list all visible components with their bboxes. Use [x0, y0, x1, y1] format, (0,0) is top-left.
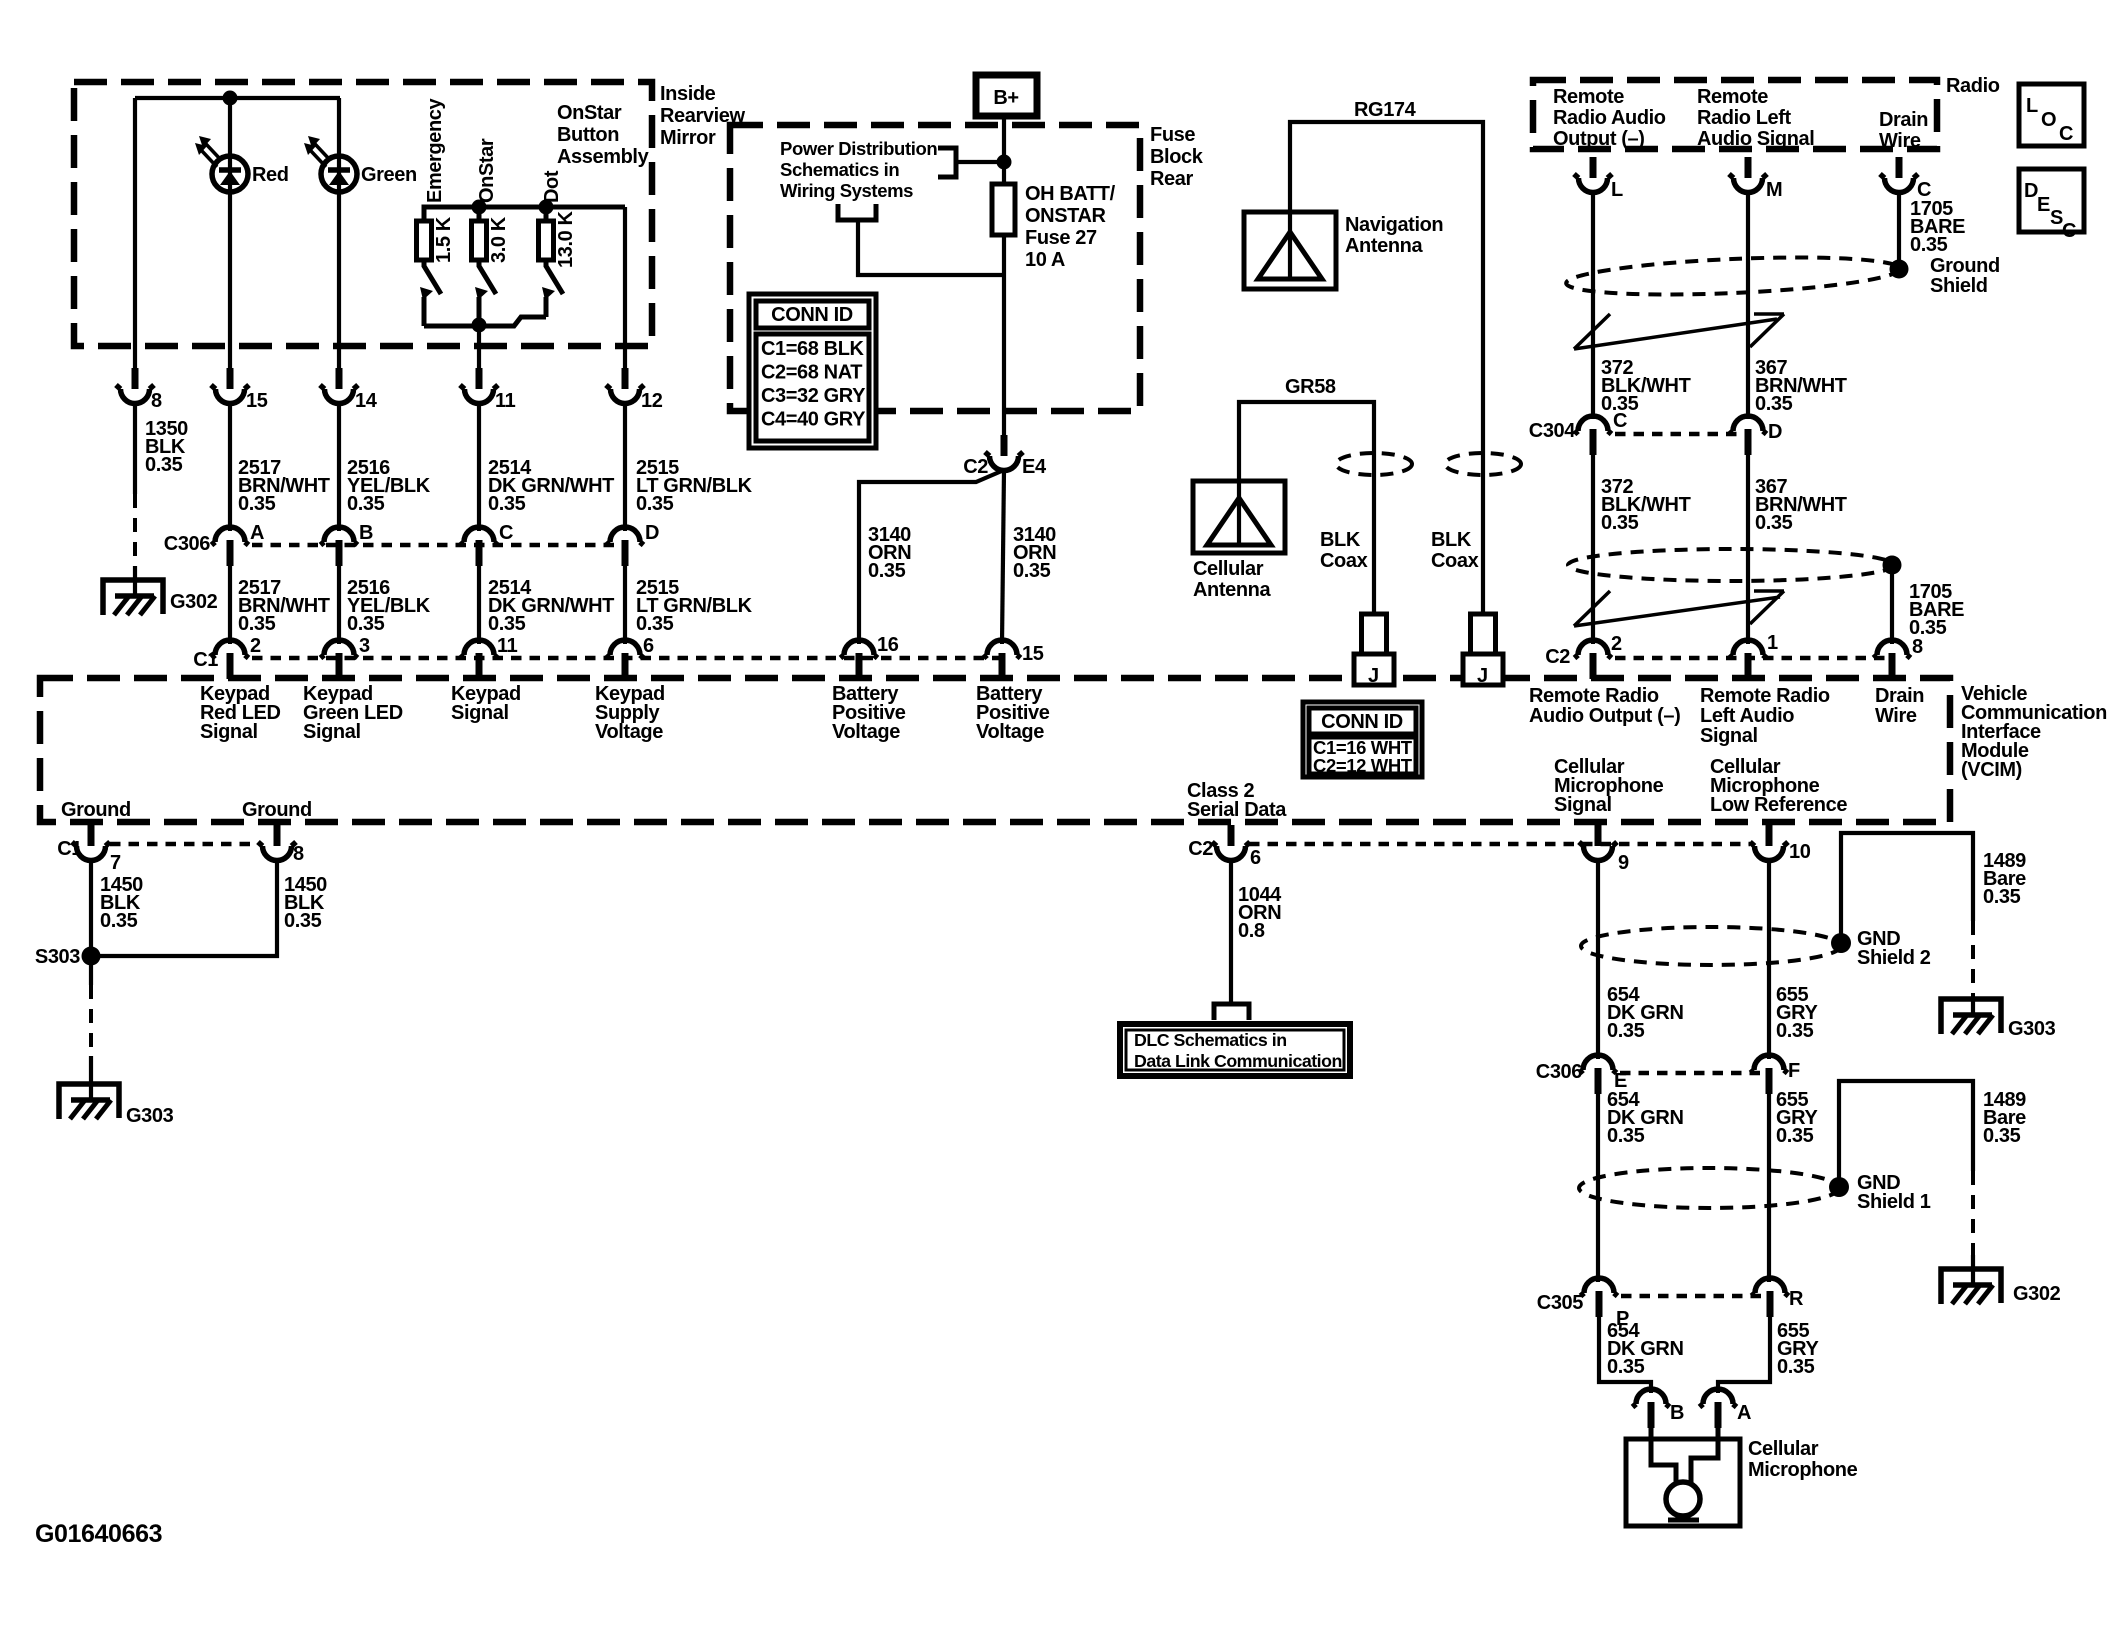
svg-text:Signal: Signal — [1554, 794, 1612, 816]
svg-text:0.35: 0.35 — [1776, 1020, 1814, 1042]
connector pin 8 mirror — [116, 368, 154, 404]
cellular microphone — [1626, 1439, 1740, 1526]
svg-text:GR58: GR58 — [1285, 376, 1336, 398]
svg-text:Voltage: Voltage — [832, 721, 900, 743]
svg-text:0.35: 0.35 — [488, 613, 526, 635]
radio dashed enclosure — [1533, 80, 1937, 149]
node ground shield junction lower — [1883, 556, 1902, 575]
svg-text:11: 11 — [495, 390, 516, 412]
wire drain 1705 BARE upper — [1897, 190, 1901, 262]
legend box DESC — [2019, 169, 2084, 232]
svg-text:Remote: Remote — [1553, 86, 1624, 108]
shield ellipse GND shield 1 — [1579, 1168, 1839, 1208]
legend box LOC — [2019, 84, 2084, 146]
bracket power distribution reference — [938, 148, 956, 177]
table CONN ID VCIM — [1303, 702, 1422, 777]
svg-text:Block: Block — [1150, 146, 1204, 168]
svg-text:G302: G302 — [2013, 1283, 2061, 1305]
wire fuse output — [1002, 235, 1006, 436]
ground G302 left — [103, 580, 163, 615]
svg-text:Mirror: Mirror — [660, 127, 716, 149]
svg-text:10: 10 — [1789, 841, 1811, 863]
svg-text:Serial Data: Serial Data — [1187, 799, 1287, 821]
switch Emergency — [420, 260, 441, 326]
svg-text:Coax: Coax — [1320, 550, 1368, 572]
svg-text:C304: C304 — [1529, 420, 1576, 442]
shield ellipse GR58 — [1336, 453, 1412, 475]
wire bracket tap — [956, 160, 1004, 164]
connector C305 pin P — [1581, 1278, 1618, 1317]
connector C305 pin R — [1752, 1278, 1789, 1317]
wire 1450 BLK 0.35 pin 8 — [99, 858, 277, 956]
VCIM dashed enclosure — [40, 678, 1950, 822]
svg-text:0.35: 0.35 — [1607, 1020, 1645, 1042]
connector C1 pin 8 lower — [258, 825, 296, 861]
node junction red LED column — [223, 91, 238, 106]
svg-text:0.35: 0.35 — [1983, 886, 2021, 908]
connector C1 pin 6 — [607, 640, 644, 679]
table CONN ID fuse block — [749, 294, 876, 448]
connector C304 pin C — [1575, 416, 1612, 455]
dashed connector row C305 — [1621, 1294, 1768, 1299]
svg-text:16: 16 — [877, 634, 899, 656]
wire drain 1705 BARE lower — [1890, 571, 1894, 644]
dashed connector row C304 — [1615, 432, 1746, 437]
svg-text:Signal: Signal — [200, 721, 258, 743]
svg-text:Wire: Wire — [1879, 130, 1921, 152]
svg-text:Inside: Inside — [660, 83, 716, 105]
svg-text:G303: G303 — [2008, 1018, 2056, 1040]
connector C1 pin 3 — [321, 640, 358, 679]
svg-text:6: 6 — [1250, 847, 1261, 869]
svg-text:C3=32 GRY: C3=32 GRY — [761, 385, 866, 407]
svg-text:Signal: Signal — [451, 702, 509, 724]
dashed connector row VCIM bottom — [1249, 842, 1750, 847]
svg-text:RG174: RG174 — [1354, 99, 1417, 121]
navigation antenna — [1244, 212, 1336, 289]
wire 655 GRY middle — [1767, 1089, 1771, 1282]
resistor 13.0 K — [539, 221, 554, 260]
wire 655 to microphone pin A — [1718, 1312, 1770, 1393]
svg-text:0.35: 0.35 — [868, 560, 906, 582]
svg-text:D: D — [2024, 180, 2038, 202]
svg-text:1: 1 — [1767, 632, 1778, 654]
wire pin 12 column — [623, 207, 627, 370]
svg-text:ONSTAR: ONSTAR — [1025, 205, 1107, 227]
connector C306 pin C — [461, 527, 498, 566]
wire 2516 YEL/BLK upper — [337, 401, 341, 531]
svg-text:Audio Output (–): Audio Output (–) — [1529, 705, 1680, 727]
connector pin 12 mirror — [606, 368, 644, 404]
connector radio pin M — [1729, 157, 1767, 193]
coax connector RG174 — [1463, 614, 1503, 687]
svg-text:C: C — [2062, 220, 2076, 242]
svg-text:8: 8 — [151, 390, 162, 412]
svg-text:0.35: 0.35 — [488, 493, 526, 515]
connector radio pin L — [1574, 157, 1612, 193]
svg-text:Output (–): Output (–) — [1553, 128, 1645, 150]
reference box DLC Schematics — [1120, 1024, 1350, 1076]
svg-text:3.0 K: 3.0 K — [488, 216, 510, 263]
connector C306 pin A — [212, 527, 249, 566]
wire RG174 coax — [1290, 122, 1483, 614]
svg-text:0.35: 0.35 — [347, 493, 385, 515]
svg-text:C: C — [2059, 123, 2073, 145]
svg-text:E4: E4 — [1022, 456, 1047, 478]
svg-text:OnStar: OnStar — [476, 138, 498, 203]
svg-text:L: L — [1611, 179, 1623, 201]
svg-text:Wire: Wire — [1875, 705, 1917, 727]
connector microphone pin A — [1700, 1389, 1737, 1428]
svg-text:0.35: 0.35 — [636, 613, 674, 635]
svg-text:C: C — [499, 522, 513, 544]
svg-text:0.35: 0.35 — [284, 910, 322, 932]
connector microphone pin B — [1633, 1389, 1670, 1428]
svg-text:(VCIM): (VCIM) — [1961, 759, 2022, 781]
ground G303 right — [1941, 999, 2001, 1034]
svg-text:9: 9 — [1618, 852, 1629, 874]
bracket DLC continuation — [1214, 1004, 1249, 1020]
svg-text:Wiring Systems: Wiring Systems — [780, 180, 913, 201]
svg-text:11: 11 — [497, 635, 518, 657]
svg-text:Shield: Shield — [1930, 275, 1988, 297]
svg-text:BLK: BLK — [1431, 529, 1472, 551]
wire GR58 coax — [1239, 402, 1374, 614]
node junction OnStar column — [472, 200, 487, 215]
svg-text:C1=68 BLK: C1=68 BLK — [761, 338, 865, 360]
svg-text:Ground: Ground — [242, 799, 312, 821]
svg-text:C306: C306 — [164, 533, 210, 555]
svg-text:15: 15 — [246, 390, 268, 412]
svg-text:C2=12 WHT: C2=12 WHT — [1313, 755, 1413, 776]
wire 367 BRN/WHT lower — [1746, 450, 1750, 644]
connector VCIM pin 9 — [1579, 825, 1617, 861]
svg-text:F: F — [1788, 1060, 1800, 1082]
wire 2517 BRN/WHT lower — [228, 561, 232, 644]
svg-text:2: 2 — [1611, 633, 1622, 655]
shield ellipse radio lower — [1568, 549, 1894, 581]
bracket schematics continuation — [838, 204, 876, 220]
svg-text:12: 12 — [641, 390, 663, 412]
svg-text:0.8: 0.8 — [1238, 920, 1265, 942]
svg-text:L: L — [2026, 95, 2038, 117]
svg-text:OnStar: OnStar — [557, 102, 622, 124]
dashed connector row C306 — [252, 543, 623, 548]
svg-text:0.35: 0.35 — [1776, 1125, 1814, 1147]
connector radio pin C drain — [1880, 157, 1918, 193]
wire 1450 BLK 0.35 pin 7 — [89, 858, 93, 956]
svg-text:0.35: 0.35 — [238, 493, 276, 515]
wire keypad switch return bus — [424, 317, 546, 326]
connector C306 pin E — [1580, 1055, 1617, 1094]
svg-text:8: 8 — [1912, 636, 1923, 658]
svg-text:Navigation: Navigation — [1345, 214, 1443, 236]
svg-text:O: O — [2041, 109, 2056, 131]
shield ellipse RG174 — [1445, 453, 1521, 475]
wire 372 BLK/WHT upper — [1591, 190, 1595, 419]
svg-text:G302: G302 — [170, 591, 218, 613]
svg-text:Signal: Signal — [303, 721, 361, 743]
coax connector GR58 — [1354, 614, 1394, 687]
connector C304 pin D — [1730, 416, 1767, 455]
svg-text:G01640663: G01640663 — [35, 1520, 162, 1548]
svg-text:Green: Green — [361, 164, 417, 186]
svg-text:C2: C2 — [1545, 646, 1570, 668]
connector VCIM pin 6 class 2 — [1212, 825, 1250, 861]
connector C1 pin 11 — [461, 640, 498, 679]
wire 2515 LT GRN/BLK lower — [623, 561, 627, 644]
svg-text:C305: C305 — [1537, 1292, 1583, 1314]
wire 655 GRY upper — [1767, 858, 1771, 1059]
svg-text:0.35: 0.35 — [1910, 234, 1948, 256]
svg-text:Remote Radio: Remote Radio — [1700, 685, 1830, 707]
svg-text:Fuse 27: Fuse 27 — [1025, 227, 1097, 249]
svg-text:Radio: Radio — [1946, 75, 2000, 97]
svg-text:Microphone: Microphone — [1748, 1459, 1858, 1481]
svg-text:0.35: 0.35 — [347, 613, 385, 635]
node ground shield junction upper — [1890, 260, 1909, 279]
svg-text:Button: Button — [557, 124, 619, 146]
wire 2515 LT GRN/BLK upper — [623, 401, 627, 531]
svg-text:Left Audio: Left Audio — [1700, 705, 1794, 727]
svg-text:14: 14 — [355, 390, 378, 412]
wire pin 11 column — [477, 326, 481, 370]
fuse block rear dashed enclosure — [730, 125, 1140, 411]
ground G302 right — [1941, 1269, 2001, 1304]
svg-text:Dot: Dot — [541, 170, 563, 203]
wire 1044 ORN 0.8 — [1229, 858, 1233, 1004]
svg-text:C306: C306 — [1536, 1061, 1582, 1083]
power feed B+ — [976, 75, 1037, 116]
svg-text:CONN ID: CONN ID — [1321, 711, 1403, 733]
svg-text:8: 8 — [293, 843, 304, 865]
svg-text:C2: C2 — [1188, 838, 1213, 860]
wire 1350 BLK 0.35 — [133, 401, 137, 494]
LED Green — [304, 136, 357, 192]
connector C2 pin 1 — [1730, 640, 1767, 679]
connector C1 pin 2 — [212, 640, 249, 679]
connector C306 pin D — [607, 527, 644, 566]
svg-text:Drain: Drain — [1879, 109, 1928, 131]
cellular antenna — [1193, 481, 1285, 553]
wire top bus of mirror — [135, 96, 340, 100]
svg-text:S303: S303 — [35, 946, 80, 968]
wire 367 BRN/WHT upper — [1746, 190, 1750, 419]
svg-text:M: M — [1766, 179, 1782, 201]
wire battery feed split left — [859, 470, 1004, 644]
svg-text:B+: B+ — [993, 87, 1018, 109]
svg-text:3: 3 — [359, 635, 370, 657]
wire 372 BLK/WHT lower — [1591, 450, 1595, 644]
wire shield 1 to ground bridge — [1839, 1081, 1973, 1187]
svg-text:G303: G303 — [126, 1105, 174, 1127]
svg-text:0.35: 0.35 — [100, 910, 138, 932]
wire 2514 DK GRN/WHT upper — [477, 401, 481, 531]
svg-text:Low Reference: Low Reference — [1710, 794, 1847, 816]
svg-text:Cellular: Cellular — [1193, 558, 1264, 580]
svg-text:C2: C2 — [963, 456, 988, 478]
svg-text:Signal: Signal — [1700, 725, 1758, 747]
wire keypad resistor bus — [424, 207, 625, 221]
svg-text:D: D — [1768, 421, 1782, 443]
svg-text:B: B — [359, 522, 373, 544]
connector C2 E4 fuse block — [985, 435, 1023, 471]
wire 654 to microphone pin B — [1599, 1312, 1651, 1393]
shield crossover marks lower — [1574, 591, 1784, 626]
svg-text:0.35: 0.35 — [636, 493, 674, 515]
svg-text:Audio Signal: Audio Signal — [1697, 128, 1814, 150]
node junction B+ tap — [997, 155, 1012, 170]
svg-text:CONN ID: CONN ID — [771, 304, 853, 326]
svg-text:Antenna: Antenna — [1345, 235, 1423, 257]
svg-text:2: 2 — [250, 635, 261, 657]
wire B+ feed to fuse — [1002, 116, 1006, 184]
svg-text:0.35: 0.35 — [1601, 512, 1639, 534]
svg-text:C4=40 GRY: C4=40 GRY — [761, 409, 866, 431]
svg-text:B: B — [1670, 1402, 1684, 1424]
svg-text:0.35: 0.35 — [1755, 512, 1793, 534]
dashed connector row C306 lower — [1620, 1071, 1767, 1076]
svg-text:Cellular: Cellular — [1748, 1438, 1819, 1460]
wire 2516 YEL/BLK lower — [337, 561, 341, 644]
node GND shield 1 — [1829, 1177, 1849, 1197]
resistor 1.5 K — [417, 221, 432, 260]
connector C1 pin 7 — [72, 825, 110, 861]
svg-text:A: A — [250, 522, 264, 544]
connector VCIM pin 10 — [1750, 825, 1788, 861]
node junction switch bus — [472, 318, 487, 333]
svg-text:C1: C1 — [57, 838, 82, 860]
svg-text:1.5 K: 1.5 K — [433, 216, 455, 263]
svg-text:BLK: BLK — [1320, 529, 1361, 551]
svg-text:Ground: Ground — [61, 799, 131, 821]
svg-text:Schematics in: Schematics in — [780, 159, 899, 180]
shield crossover marks upper — [1574, 314, 1784, 349]
LED Red — [195, 136, 248, 192]
svg-text:Red: Red — [252, 164, 289, 186]
svg-text:Shield 2: Shield 2 — [1857, 947, 1931, 969]
connector VCIM pin 15 — [984, 640, 1021, 679]
fuse 27 OH BATT/ONSTAR 10 A — [992, 184, 1015, 235]
svg-text:Coax: Coax — [1431, 550, 1479, 572]
wire red LED column — [228, 98, 232, 370]
resistor 3.0 K — [472, 221, 487, 260]
connector pin 14 mirror — [320, 368, 358, 404]
svg-text:Shield 1: Shield 1 — [1857, 1191, 1931, 1213]
svg-text:Radio Audio: Radio Audio — [1553, 107, 1666, 129]
svg-text:Antenna: Antenna — [1193, 579, 1271, 601]
svg-text:Assembly: Assembly — [557, 146, 650, 168]
dashed connector row C2 radio — [1615, 656, 1890, 661]
wire 654 DK GRN upper — [1596, 858, 1600, 1059]
svg-text:Drain: Drain — [1875, 685, 1924, 707]
svg-text:15: 15 — [1022, 643, 1044, 665]
svg-text:C2=68 NAT: C2=68 NAT — [761, 362, 862, 384]
svg-text:R: R — [1789, 1288, 1804, 1310]
wire schematics continuation to fuse output — [858, 220, 1004, 275]
wire battery feed right — [1002, 470, 1004, 644]
connector C306 pin B — [321, 527, 358, 566]
shield ellipse GND shield 2 — [1581, 927, 1841, 965]
dashed connector row C1 lower — [110, 842, 258, 847]
shield ellipse radio upper — [1565, 252, 1900, 301]
svg-text:0.35: 0.35 — [1777, 1356, 1815, 1378]
svg-text:0.35: 0.35 — [1013, 560, 1051, 582]
switch OnStar — [475, 260, 496, 326]
svg-text:Rear: Rear — [1150, 168, 1193, 190]
svg-text:Fuse: Fuse — [1150, 124, 1195, 146]
connector C306 pin F — [1751, 1055, 1788, 1094]
svg-text:0.35: 0.35 — [1755, 393, 1793, 415]
connector pin 11 mirror — [460, 368, 498, 404]
svg-text:D: D — [645, 522, 659, 544]
svg-text:C: C — [1613, 410, 1627, 432]
svg-text:Voltage: Voltage — [595, 721, 663, 743]
connector VCIM pin 16 — [841, 640, 878, 679]
svg-text:Data Link Communication: Data Link Communication — [1134, 1051, 1342, 1071]
svg-text:Power Distribution: Power Distribution — [780, 138, 937, 159]
connector C2 pin 8 drain — [1874, 640, 1911, 679]
wire 2517 BRN/WHT upper — [228, 401, 232, 531]
splice S303 — [82, 947, 101, 966]
svg-text:6: 6 — [643, 635, 654, 657]
svg-text:7: 7 — [110, 852, 121, 874]
node junction Dot column — [539, 200, 554, 215]
wire pin 8 column — [133, 98, 137, 370]
connector C2 pin 2 — [1575, 640, 1612, 679]
ground G303 left — [59, 1084, 119, 1119]
node GND shield 2 — [1831, 933, 1851, 953]
svg-text:Remote: Remote — [1697, 86, 1768, 108]
svg-text:DLC Schematics in: DLC Schematics in — [1134, 1030, 1287, 1050]
wire splice to ground G303 — [89, 962, 93, 985]
svg-text:E: E — [2037, 194, 2050, 216]
svg-text:0.35: 0.35 — [145, 454, 183, 476]
svg-text:Remote Radio: Remote Radio — [1529, 685, 1659, 707]
svg-text:0.35: 0.35 — [1607, 1356, 1645, 1378]
inside rearview mirror dashed enclosure — [74, 82, 652, 346]
svg-text:0.35: 0.35 — [1607, 1125, 1645, 1147]
connector pin 15 mirror — [211, 368, 249, 404]
svg-text:10 A: 10 A — [1025, 249, 1065, 271]
wire green LED column — [337, 98, 341, 370]
svg-text:0.35: 0.35 — [238, 613, 276, 635]
svg-text:0.35: 0.35 — [1983, 1125, 2021, 1147]
switch Dot — [542, 260, 563, 317]
wire 2514 DK GRN/WHT lower — [477, 561, 481, 644]
svg-text:13.0 K: 13.0 K — [555, 211, 577, 268]
svg-text:OH BATT/: OH BATT/ — [1025, 183, 1116, 205]
dashed connector row C1-C2 VCIM top — [252, 656, 1000, 661]
svg-text:A: A — [1737, 1402, 1751, 1424]
svg-text:Voltage: Voltage — [976, 721, 1044, 743]
wire 654 DK GRN middle — [1596, 1089, 1600, 1282]
svg-text:Ground: Ground — [1930, 255, 2000, 277]
wire shield 2 to ground bridge — [1841, 833, 1973, 943]
svg-text:Emergency: Emergency — [424, 97, 446, 203]
svg-text:Radio Left: Radio Left — [1697, 107, 1792, 129]
